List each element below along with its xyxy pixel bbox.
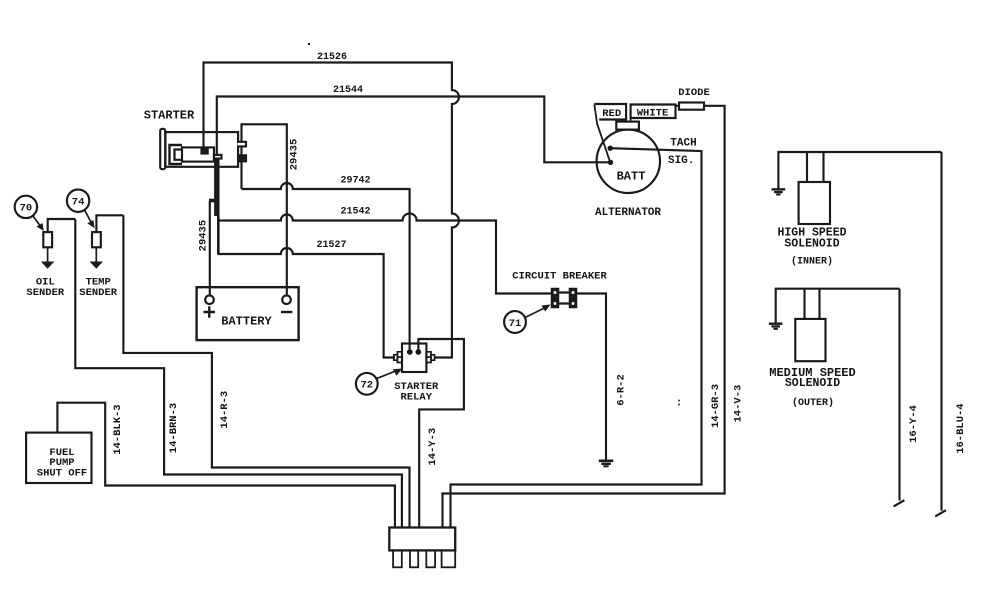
circuit breaker right bar [570,289,577,308]
callout circle 74 [67,190,89,212]
starter relay body [402,344,426,373]
wire 21526 [204,63,459,358]
ground high solenoid [772,188,786,195]
oil sender ground wire [47,247,49,262]
connector prong 4 [442,550,456,567]
relay terminal dot left [407,349,413,355]
svg-text:14-GR-3: 14-GR-3 [710,384,722,428]
svg-text:72: 72 [360,380,373,392]
alternator WHITE box [631,105,676,119]
wire battery positive [209,201,211,296]
wire 6-R-2 [577,294,607,460]
wire 21542 [218,214,552,294]
svg-text:14-V-3: 14-V-3 [732,385,744,423]
svg-text:21527: 21527 [316,240,346,251]
wire 21544 [217,97,609,163]
svg-text:16-Y-4: 16-Y-4 [908,405,920,443]
svg-text:RED: RED [602,108,621,120]
connector prong 3 [426,550,435,567]
svg-text:SHUT OFF: SHUT OFF [37,467,87,479]
svg-text:ALTERNATOR: ALTERNATOR [595,207,661,219]
svg-text:SIG.: SIG. [668,155,694,167]
wire temp 14-R-3 [123,215,409,527]
battery terminal negative [282,295,291,304]
callout circle 71 [504,311,526,333]
svg-text:29742: 29742 [340,176,370,187]
wire fuel 14-BLK-3 [57,403,395,528]
medium speed solenoid body [795,319,825,361]
svg-text:DIODE: DIODE [678,87,710,99]
starter terminal blob [202,148,208,153]
svg-text:SOLENOID: SOLENOID [785,377,840,390]
starter body [165,132,238,167]
starter output tab [214,155,222,159]
svg-text:14-BLK-3: 14-BLK-3 [112,404,124,454]
alternator dot upper [608,146,613,151]
svg-text:RELAY: RELAY [401,392,433,404]
svg-text:29435: 29435 [198,220,210,252]
svg-text:21544: 21544 [333,85,363,96]
temp sender ground wire [95,247,97,262]
thick starter cable [214,158,219,217]
circuit breaker white dots [554,291,575,305]
svg-text:21526: 21526 [317,52,347,63]
wire 14-V-3 [443,106,725,528]
wire tach sig 14-GR-3 [451,148,702,527]
wire oil 14-BRN-3 [75,219,402,528]
svg-text:(OUTER): (OUTER) [792,397,834,409]
callout 72 arrow [377,371,398,379]
wire 14-Y-3 [418,339,464,528]
svg-text:SOLENOID: SOLENOID [784,238,839,251]
svg-text:SENDER: SENDER [26,287,65,299]
relay terminal dot right [415,349,421,355]
starter side tab upper [238,142,247,147]
speck colon [678,400,680,402]
ground 6-R-2 [599,460,614,468]
svg-text:CIRCUIT BREAKER: CIRCUIT BREAKER [512,271,607,283]
svg-text:SENDER: SENDER [79,287,118,299]
callout 70 arrow [33,216,41,227]
svg-text:16-BLU-4: 16-BLU-4 [955,403,967,453]
temp sender arrow [90,262,103,269]
red box stub [626,118,631,122]
svg-text:STARTER: STARTER [144,108,195,122]
relay left tabs [397,352,402,363]
callout circle 70 [15,196,37,218]
medium speed solenoid wires [776,289,900,323]
connector prong 2 [410,550,418,567]
connector prong 1 [393,550,402,567]
tick 16-Y-4 [894,500,905,506]
tick 16-BLU-4 [935,510,946,516]
high speed solenoid wires [778,152,941,189]
starter side blob lower [240,155,247,161]
wire 16-Y-4 [898,289,900,501]
circuit breaker middle [559,293,570,304]
svg-text:6-R-2: 6-R-2 [616,374,628,406]
alternator diagonal wire [594,105,610,163]
svg-text:14-Y-3: 14-Y-3 [427,428,439,466]
svg-text:WHITE: WHITE [637,108,669,120]
high speed solenoid body [799,182,830,224]
wire 16-BLU-4 [940,152,942,511]
starter motor bracket [170,145,183,164]
cable jog [209,199,216,203]
oil sender arrow [41,262,54,269]
svg-text:71: 71 [509,318,522,330]
ground medium solenoid [769,323,783,330]
svg-text:14-R-3: 14-R-3 [219,391,231,429]
cable stub to 21527 [217,216,220,254]
starter solenoid box 29435 [242,124,287,295]
svg-text:(INNER): (INNER) [791,256,833,268]
battery terminal positive [205,295,214,304]
relay left outer tab [394,355,398,360]
relay right outer tab [431,355,435,360]
battery minus sign [281,311,292,313]
oil sender body [43,232,52,247]
callout circle 72 [356,373,378,395]
svg-text:14-BRN-3: 14-BRN-3 [168,403,180,453]
circuit breaker left bar [552,289,559,308]
alternator circle [597,130,660,193]
wire 21527 [218,248,396,357]
connector body [389,528,455,551]
diode body [679,103,704,110]
diode feed wire [676,105,680,107]
svg-text:74: 74 [72,197,85,209]
svg-text:21542: 21542 [340,207,370,218]
callout 74 arrow [85,210,93,224]
svg-text:BATTERY: BATTERY [221,315,272,329]
svg-text:TACH: TACH [670,137,696,149]
temp sender wire up [96,215,123,232]
oil sender wire up [48,219,76,232]
battery plus sign [204,306,216,317]
relay right tabs [426,352,431,363]
fuel pump shut off box [26,433,91,483]
svg-text:BATT: BATT [617,169,646,183]
svg-text:29435: 29435 [288,139,300,171]
starter flange [160,129,165,169]
wire 29742 [242,183,410,349]
temp sender body [92,232,101,247]
svg-text:70: 70 [20,203,33,215]
speck [308,43,310,45]
alternator RED box [594,104,626,120]
alternator terminal block [616,122,639,130]
alternator dot lower [608,160,613,165]
battery [197,287,299,340]
callout 71 arrow [525,308,546,318]
starter motor [182,147,214,161]
